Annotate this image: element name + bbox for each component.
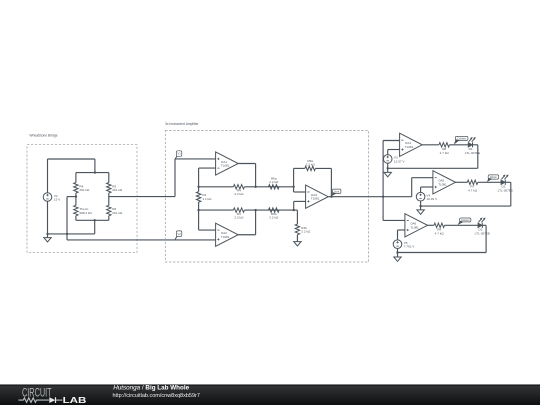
ground V4 [417, 210, 424, 214]
op-amp OA6 [405, 214, 428, 237]
svg-text:Hutsonga / Big Lab Whole: Hutsonga / Big Lab Whole [113, 385, 189, 392]
node feedback output junction [330, 196, 332, 198]
svg-text:3x Instrument Amplifier: 3x Instrument Amplifier [165, 122, 199, 126]
node V5 ground junction [396, 251, 398, 253]
svg-text:LTL-307EE: LTL-307EE [475, 231, 490, 235]
node R2 bottom row junction [197, 209, 199, 211]
Wheatstone Bridge dashed box [27, 145, 137, 253]
flag Vout [331, 189, 341, 196]
op-amp OA2 [216, 223, 239, 246]
wire V4 bottom [420, 201, 422, 210]
svg-text:V1: V1 [178, 152, 182, 156]
node bridge left output [75, 195, 77, 197]
wire feedback up [294, 168, 305, 186]
flag Hottest [458, 218, 471, 225]
svg-text:V2: V2 [178, 232, 182, 236]
wire to OA1 + input [175, 159, 216, 197]
voltage source V3 [383, 155, 405, 164]
resistor R3 [233, 208, 244, 220]
wire R5 bottom to node [108, 193, 110, 205]
wire V1 top to bridge top [48, 159, 95, 193]
svg-text:http://circuitlab.com/cnw8xq8x: http://circuitlab.com/cnw8xq8xb59r7 [113, 393, 200, 399]
svg-text:261 kΩ: 261 kΩ [79, 188, 90, 192]
ground R4b [294, 242, 301, 246]
voltage source V4 [416, 192, 438, 201]
voltage source V1 [43, 193, 61, 202]
wire R7 to D2 [478, 181, 501, 183]
wire bridge bottom rail [76, 219, 109, 221]
wire D1 to rail [472, 145, 477, 169]
resistor R4 [74, 183, 90, 194]
resistor R8 [439, 143, 450, 155]
wire top row mid [244, 186, 293, 188]
svg-text:4.7 kΩ: 4.7 kΩ [440, 151, 450, 155]
resistor R4a [233, 185, 244, 197]
node V3 ground junction [387, 167, 389, 169]
ground bridge [44, 238, 51, 242]
wire R9 to D3 [445, 224, 478, 226]
svg-text:2.2 kΩ: 2.2 kΩ [269, 216, 279, 220]
section label: Wheatstone Bridge [30, 134, 58, 138]
op-amp OA4 [400, 133, 423, 156]
svg-text:Coldest: Coldest [457, 137, 466, 141]
wire to R5 top [108, 173, 110, 183]
svg-text:TL081: TL081 [410, 225, 419, 229]
resistor R5 [107, 183, 123, 194]
node OA1 output junction [254, 186, 256, 188]
node crossing junction [66, 233, 68, 235]
node OA2 output junction [254, 209, 256, 211]
svg-text:1.1 kΩ: 1.1 kΩ [202, 197, 212, 201]
flag Warm [487, 175, 499, 182]
wire OA5 output [456, 181, 468, 183]
flag Coldest [454, 136, 468, 144]
net flag V2 input [175, 231, 182, 240]
wire ground rail [48, 233, 95, 235]
node V4 ground junction [419, 205, 421, 207]
svg-text:TL081: TL081 [405, 145, 414, 149]
svg-text:Wheatstone Bridge: Wheatstone Bridge [30, 134, 58, 138]
wire bridge bottom to ground rail [94, 220, 96, 234]
node V1 negative junction [46, 233, 48, 235]
wire left output to V2 net [67, 197, 76, 240]
wire Therm bottom [75, 216, 77, 221]
ground V3 [384, 172, 391, 176]
svg-text:4.7 kΩ: 4.7 kΩ [468, 188, 478, 192]
wire to R4 top [75, 173, 77, 183]
LED D3 [475, 217, 490, 235]
wire V5 bottom [397, 249, 399, 258]
resistor R4b [295, 224, 311, 235]
wire bottom row left [199, 209, 234, 211]
op-amp OA3 [306, 185, 329, 208]
voltage source V5 [393, 240, 415, 249]
op-amp OA5 [433, 171, 456, 194]
svg-text:2.2 kΩ: 2.2 kΩ [306, 163, 316, 167]
section label: 3x Instrument Amplifier [165, 122, 199, 126]
resistor R2 [196, 192, 212, 203]
svg-text:261 kΩ: 261 kΩ [112, 211, 123, 215]
svg-text:15 V: 15 V [54, 198, 61, 202]
footer bar [0, 385, 540, 405]
svg-text:7.791 V: 7.791 V [404, 245, 416, 249]
ground V5 [394, 257, 401, 261]
node comparator tap junction [382, 196, 384, 198]
wire to OA6 - input [383, 219, 405, 221]
wire R4b to ground [296, 235, 298, 242]
wire R4 bottom to node [75, 193, 77, 205]
wire D3 to rail [482, 225, 486, 252]
wire comparator signal vertical [382, 141, 384, 221]
wire lower signal to amplifier [67, 239, 216, 241]
wire bottom row mid [244, 209, 297, 211]
wire OA1 output [238, 164, 255, 187]
svg-text:TL081: TL081 [221, 235, 230, 239]
wire bridge top rail [76, 172, 109, 174]
wire OA3 output Vout [328, 196, 412, 198]
resistor R9 [434, 223, 445, 235]
svg-text:13.57 V: 13.57 V [394, 159, 406, 163]
node bottom row right junction [293, 209, 295, 211]
wire R8 to D1 [450, 144, 469, 146]
wire D2 to rail [505, 182, 511, 206]
wire V4 to OA5 + input [421, 187, 433, 192]
net flag V1 input [175, 151, 182, 159]
wire V3 to OA4 + input [388, 150, 400, 155]
node bridge top junction [94, 171, 96, 173]
wire feedback down to output [315, 168, 331, 196]
svg-text:10.49 V: 10.49 V [426, 197, 438, 201]
svg-text:LAB: LAB [63, 396, 87, 405]
svg-text:2.2 kΩ: 2.2 kΩ [269, 180, 279, 184]
svg-text:TL081: TL081 [311, 197, 320, 201]
svg-text:261 kΩ: 261 kΩ [112, 188, 123, 192]
wire V3 bottom [387, 163, 389, 172]
wire OA4 output [422, 144, 439, 146]
svg-text:Warm: Warm [490, 175, 498, 179]
wire R2 column top [198, 168, 200, 192]
wire comparator1 return rail [388, 167, 478, 169]
wire OA6 output [428, 224, 435, 226]
wire to R4b [296, 210, 298, 224]
wire R2 column bottom [198, 202, 200, 230]
wire OA1 - input [199, 167, 216, 169]
CircuitLab logo diode [49, 397, 55, 403]
resistor R6b [269, 208, 280, 220]
wire V1 bottom [47, 201, 49, 237]
svg-text:CIRCUIT: CIRCUIT [22, 385, 52, 399]
wire right output to amplifier [109, 196, 175, 198]
CircuitLab logo resistor wire [18, 398, 49, 403]
wire to OA5 - input [412, 178, 433, 197]
svg-text:4.7 kΩ: 4.7 kΩ [435, 231, 445, 235]
LED D1 [465, 137, 480, 155]
wire OA2 - input [199, 229, 216, 231]
svg-text:2.2 kΩ: 2.2 kΩ [234, 216, 244, 220]
wire V5 to OA6 + input [398, 230, 405, 240]
wire top row left [199, 186, 234, 188]
wire OA2 output [238, 210, 255, 235]
LED D2 [498, 174, 513, 192]
wire R6 bottom [108, 216, 110, 221]
svg-text:2.2 kΩ: 2.2 kΩ [234, 192, 244, 196]
wire to OA3 + input [294, 201, 306, 210]
wire to OA4 - input [383, 140, 400, 142]
svg-text:2.2 kΩ: 2.2 kΩ [301, 230, 311, 234]
resistor R7 [467, 180, 478, 192]
wire comparator3 return rail [398, 252, 487, 254]
svg-text:TL081: TL081 [438, 182, 447, 186]
resistor R6a [269, 177, 280, 190]
op-amp OA1 [216, 152, 239, 175]
resistor R6 [107, 205, 123, 216]
resistor R5a [305, 159, 316, 171]
node bridge bottom junction [94, 219, 96, 221]
node top row right junction [292, 186, 294, 188]
node R2 top row junction [197, 186, 199, 188]
wire to OA3 - input [294, 187, 306, 192]
resistor Therm [74, 205, 93, 216]
wire comparator2 return rail [421, 205, 511, 207]
svg-text:588.4 kΩ: 588.4 kΩ [79, 211, 92, 215]
svg-text:TL081: TL081 [221, 164, 230, 168]
instrument amplifier dashed box [165, 131, 368, 262]
